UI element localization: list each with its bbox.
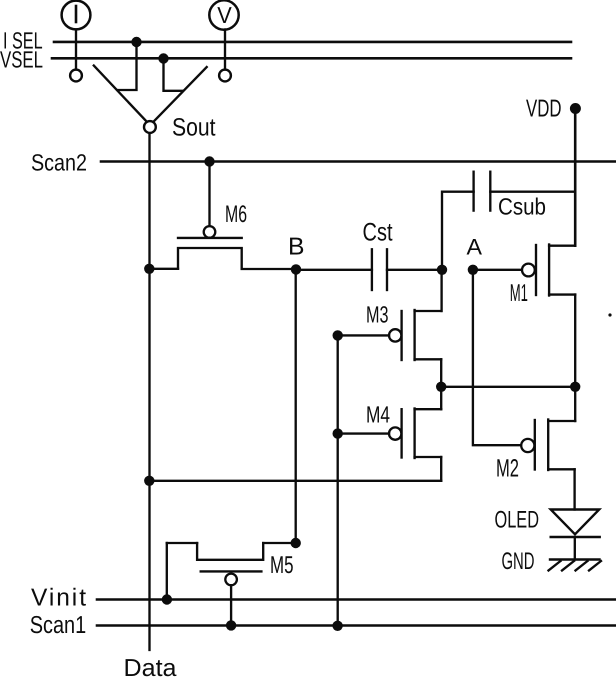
svg-text:A: A — [467, 235, 483, 260]
wire from ISEL dot into selector — [118, 42, 137, 90]
capacitor Cst — [296, 249, 442, 290]
wire M3 drain to mid node — [440, 359, 442, 387]
speck artifact — [608, 313, 611, 316]
junction dot left mid — [436, 382, 446, 392]
terminal (open circle) under V — [219, 70, 231, 82]
svg-text:VDD: VDD — [526, 96, 562, 123]
svg-text:Scan1: Scan1 — [30, 612, 86, 639]
junction dot row/Data — [144, 476, 154, 486]
svg-text:M3: M3 — [366, 302, 389, 328]
Vinit line — [97, 598, 616, 601]
wire mid node to M2 source — [574, 387, 576, 421]
terminal (open circle) under I — [70, 70, 82, 82]
junction dot Vinit/M5 — [162, 594, 172, 604]
junction dot on VSEL — [158, 53, 168, 63]
transistor M2 — [521, 420, 575, 471]
wire M1 drain down — [574, 295, 576, 387]
svg-text:Cst: Cst — [363, 219, 393, 247]
junction dot right mid — [570, 382, 580, 392]
wire Scan2 to M6 gate — [208, 162, 210, 227]
ISEL line — [54, 41, 571, 44]
svg-text:VSEL: VSEL — [0, 47, 43, 73]
ground — [549, 560, 602, 571]
svg-text:OLED: OLED — [495, 507, 540, 534]
svg-text:Csub: Csub — [498, 194, 546, 220]
junction dot M4 gate — [333, 428, 343, 438]
node VDD dot — [570, 103, 581, 114]
node B dot — [291, 264, 301, 274]
ammeter I — [62, 1, 91, 70]
node Sout (open circle) — [144, 121, 156, 133]
junction dot Scan1/M3M4 gate bus — [332, 621, 342, 631]
svg-text:M4: M4 — [366, 402, 390, 428]
transistor M4 — [338, 409, 442, 459]
wire gate bus M3-M4-Scan1 — [337, 335, 339, 625]
wire M5 source to Vinit — [166, 543, 168, 600]
svg-text:M5: M5 — [270, 552, 294, 579]
svg-text:M6: M6 — [225, 201, 247, 228]
node A dot — [468, 265, 478, 275]
transistor M3 — [338, 310, 442, 360]
wire node A down to M2 gate — [473, 270, 521, 445]
wire node A to M1 gate — [473, 269, 522, 271]
junction dot on Scan2 (M6 gate) — [204, 156, 214, 166]
wire from VSEL dot into selector — [164, 59, 183, 91]
selector triangle left side — [94, 66, 146, 121]
Scan1 line — [97, 624, 616, 627]
wire VDD vertical — [574, 109, 577, 246]
svg-text:GND: GND — [502, 548, 535, 575]
capacitor Csub — [442, 172, 575, 270]
voltmeter V — [209, 0, 238, 69]
wire M4 drain down to row wire — [440, 457, 442, 481]
wire mid horizontal — [441, 386, 575, 388]
wire node B down to M5 — [295, 269, 297, 543]
wire Csub node down to M3 — [440, 270, 442, 311]
svg-text:M2: M2 — [496, 455, 519, 483]
svg-text:Sout: Sout — [172, 114, 216, 142]
junction dot M5/B wire — [291, 538, 301, 548]
junction dot on ISEL — [131, 37, 141, 47]
diode OLED — [551, 510, 600, 560]
wire long row (row wire to Data line) — [149, 480, 441, 482]
wire mid node to M4 — [440, 387, 442, 409]
junction dot (Data line / M6 left) — [144, 264, 154, 274]
transistor M1 — [522, 245, 575, 296]
Scan2 line — [101, 160, 616, 163]
svg-text:V: V — [217, 2, 232, 28]
wire M2 drain down to OLED — [573, 469, 575, 509]
svg-text:Vinit: Vinit — [31, 584, 86, 611]
junction dot (Csub branch) — [437, 265, 447, 275]
junction dot M3 gate — [333, 330, 343, 340]
wire M5 gate to Scan1 — [230, 585, 232, 625]
transistor M5 — [167, 543, 296, 585]
svg-text:Data: Data — [124, 655, 177, 677]
VSEL line — [52, 57, 571, 60]
wire Data vertical (Sout to bottom) — [148, 133, 150, 650]
junction dot Scan1/M5 gate — [226, 620, 236, 630]
selector triangle right side — [154, 67, 207, 121]
svg-text:Scan2: Scan2 — [31, 150, 87, 176]
transistor M6 — [149, 226, 296, 269]
svg-text:B: B — [288, 234, 305, 261]
svg-text:M1: M1 — [510, 280, 528, 307]
